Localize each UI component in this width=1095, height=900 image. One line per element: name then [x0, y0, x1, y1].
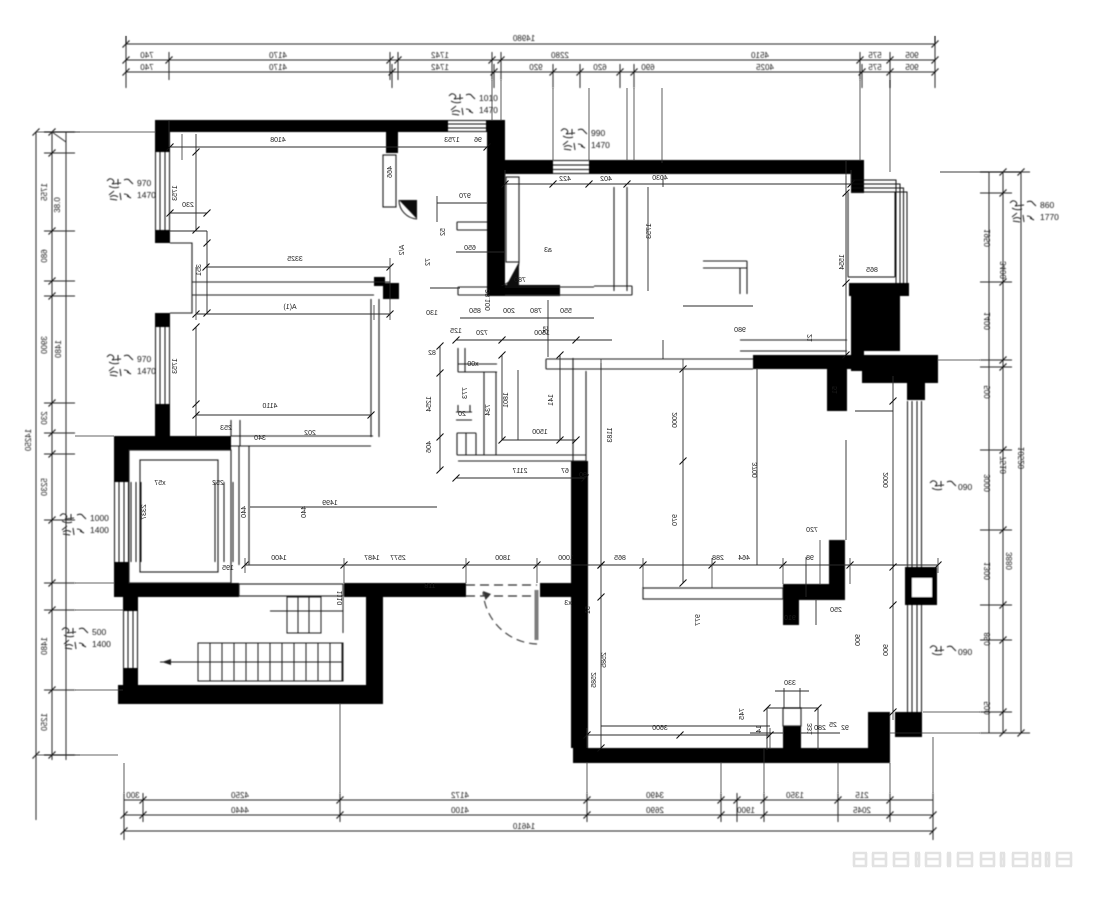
svg-text:1250: 1250: [40, 713, 49, 731]
svg-text:1183: 1183: [607, 427, 614, 442]
svg-text:3880: 3880: [1005, 552, 1014, 570]
svg-text:1500: 1500: [532, 429, 548, 436]
svg-text:14980: 14980: [512, 34, 535, 43]
svg-text:500: 500: [92, 627, 106, 637]
svg-text:422: 422: [559, 176, 571, 183]
svg-text:14610: 14610: [512, 822, 535, 831]
svg-text:4030: 4030: [652, 175, 668, 182]
svg-text:734: 734: [485, 404, 492, 416]
svg-text:252: 252: [212, 480, 224, 487]
svg-text:250: 250: [830, 607, 842, 614]
svg-text:253: 253: [220, 425, 232, 432]
svg-text:1742: 1742: [431, 51, 449, 60]
svg-text:5230: 5230: [40, 478, 49, 496]
svg-text:865: 865: [866, 267, 878, 274]
svg-text:575: 575: [868, 51, 882, 60]
svg-text:351: 351: [196, 264, 203, 276]
svg-text:51: 51: [832, 386, 839, 394]
svg-text:1742: 1742: [431, 63, 449, 72]
svg-text:977: 977: [695, 614, 702, 626]
svg-text:860: 860: [1040, 200, 1054, 210]
svg-text:288: 288: [712, 555, 724, 562]
svg-text:195: 195: [222, 565, 234, 572]
svg-text:4108: 4108: [270, 137, 286, 144]
svg-text:970: 970: [137, 178, 151, 188]
svg-text:1000: 1000: [90, 513, 109, 523]
svg-text:a3: a3: [544, 247, 552, 254]
svg-text:1487: 1487: [364, 555, 380, 562]
svg-text:2585: 2585: [591, 672, 598, 688]
svg-text:x00: x00: [467, 361, 478, 368]
svg-text:865: 865: [614, 555, 626, 562]
svg-text:230: 230: [40, 411, 49, 425]
svg-text:2000: 2000: [672, 412, 679, 428]
svg-text:21: 21: [807, 334, 814, 342]
svg-text:990: 990: [591, 128, 605, 138]
svg-text:1400: 1400: [90, 525, 109, 535]
svg-text:7510: 7510: [999, 456, 1008, 474]
svg-text:3325: 3325: [287, 256, 303, 263]
svg-text:740: 740: [140, 63, 154, 72]
svg-text:1801: 1801: [503, 392, 510, 408]
svg-text:2337: 2337: [141, 504, 148, 520]
svg-text:575: 575: [868, 63, 882, 72]
svg-text:3400: 3400: [999, 261, 1008, 279]
svg-text:96: 96: [474, 137, 482, 144]
svg-text:14250: 14250: [24, 429, 33, 452]
svg-text:20: 20: [458, 411, 466, 418]
svg-text:4100: 4100: [451, 806, 469, 815]
svg-text:406: 406: [426, 441, 433, 453]
svg-text:1554: 1554: [839, 254, 846, 270]
svg-text:500: 500: [983, 701, 992, 715]
svg-text:1753: 1753: [172, 185, 179, 201]
svg-text:745: 745: [739, 708, 746, 720]
svg-text:1400: 1400: [983, 312, 992, 330]
svg-text:1753: 1753: [444, 137, 460, 144]
svg-text:900: 900: [855, 634, 862, 646]
svg-text:1470: 1470: [591, 140, 610, 150]
svg-text:500: 500: [983, 385, 992, 399]
svg-text:4025: 4025: [756, 63, 774, 72]
svg-text:3000: 3000: [983, 474, 992, 492]
svg-text:4170: 4170: [269, 63, 287, 72]
svg-text:1350: 1350: [786, 791, 804, 800]
svg-text:141: 141: [548, 394, 555, 406]
svg-text:1755: 1755: [40, 183, 49, 201]
svg-text:466: 466: [387, 166, 394, 178]
svg-text:10520: 10520: [1017, 447, 1026, 470]
svg-text:1753: 1753: [646, 223, 653, 239]
svg-text:280: 280: [814, 725, 826, 732]
svg-text:1400: 1400: [271, 555, 287, 562]
svg-text:850: 850: [983, 632, 992, 646]
svg-text:1110: 1110: [337, 591, 344, 606]
svg-text:650: 650: [464, 245, 476, 252]
svg-text:90: 90: [579, 472, 587, 479]
svg-text:x57: x57: [154, 480, 165, 487]
svg-text:1400: 1400: [92, 639, 111, 649]
svg-text:780: 780: [530, 308, 542, 315]
svg-text:215: 215: [855, 791, 869, 800]
svg-text:67: 67: [561, 468, 569, 475]
svg-text:550: 550: [560, 308, 572, 315]
svg-text:2585: 2585: [601, 652, 608, 668]
svg-text:4172: 4172: [451, 791, 469, 800]
svg-text:850: 850: [469, 308, 481, 315]
svg-text:780: 780: [514, 277, 526, 284]
svg-text:331: 331: [807, 723, 814, 735]
svg-text:2045: 2045: [853, 806, 871, 815]
svg-text:4510: 4510: [751, 51, 769, 60]
svg-text:970: 970: [137, 354, 151, 364]
svg-text:4170: 4170: [269, 51, 287, 60]
svg-text:A/2: A/2: [399, 245, 406, 256]
svg-text:130: 130: [426, 310, 438, 317]
svg-text:2690: 2690: [646, 806, 664, 815]
svg-text:3700: 3700: [752, 462, 759, 478]
svg-text:090: 090: [958, 482, 972, 492]
svg-text:1499: 1499: [322, 500, 338, 507]
svg-text:440: 440: [301, 506, 308, 518]
svg-text:4250: 4250: [231, 791, 249, 800]
svg-text:x3: x3: [564, 600, 572, 607]
svg-text:38.0: 38.0: [53, 197, 62, 213]
svg-text:4110: 4110: [262, 403, 277, 410]
svg-text:125: 125: [450, 328, 462, 335]
svg-text:98: 98: [806, 555, 814, 562]
svg-text:620: 620: [593, 63, 607, 72]
svg-text:118: 118: [424, 583, 435, 590]
svg-text:52: 52: [440, 228, 447, 236]
svg-text:2280: 2280: [551, 51, 569, 60]
svg-text:38.100: 38.100: [485, 289, 492, 311]
svg-text:720: 720: [806, 527, 818, 534]
svg-text:1470: 1470: [137, 366, 156, 376]
svg-text:690: 690: [641, 63, 655, 72]
svg-text:1470: 1470: [479, 105, 498, 115]
svg-text:1470: 1470: [137, 190, 156, 200]
svg-text:1000: 1000: [558, 555, 574, 562]
svg-text:A(1): A(1): [283, 304, 296, 311]
svg-text:300: 300: [126, 791, 140, 800]
svg-text:3490: 3490: [646, 791, 664, 800]
svg-text:920: 920: [529, 63, 543, 72]
svg-text:402: 402: [600, 176, 612, 183]
svg-text:1770: 1770: [1040, 212, 1059, 222]
svg-text:2117: 2117: [512, 468, 527, 475]
svg-text:1800: 1800: [495, 555, 511, 562]
svg-text:14: 14: [756, 725, 763, 733]
svg-text:1753: 1753: [172, 358, 179, 374]
svg-text:773: 773: [462, 387, 469, 399]
svg-text:970: 970: [459, 193, 471, 200]
svg-text:200: 200: [503, 308, 515, 315]
svg-text:900: 900: [883, 644, 890, 656]
svg-text:4440: 4440: [231, 806, 249, 815]
svg-text:82: 82: [428, 350, 436, 357]
svg-text:740: 740: [140, 51, 154, 60]
svg-text:51: 51: [585, 606, 592, 614]
svg-text:3900: 3900: [40, 336, 49, 354]
svg-text:980: 980: [734, 327, 746, 334]
svg-text:340: 340: [254, 435, 266, 442]
svg-text:910: 910: [784, 615, 796, 622]
svg-text:905: 905: [905, 63, 919, 72]
svg-text:1480: 1480: [54, 340, 63, 358]
svg-text:1480: 1480: [40, 637, 49, 655]
svg-text:72: 72: [425, 258, 432, 266]
svg-text:970: 970: [672, 514, 679, 526]
svg-text:25: 25: [829, 722, 837, 729]
svg-text:1900: 1900: [737, 806, 755, 815]
svg-text:330: 330: [784, 680, 796, 687]
svg-text:2000: 2000: [883, 472, 890, 488]
svg-text:1010: 1010: [479, 93, 498, 103]
svg-text:202: 202: [304, 430, 316, 437]
svg-text:1254: 1254: [426, 396, 433, 412]
svg-text:720: 720: [476, 330, 488, 337]
svg-text:1950: 1950: [983, 229, 992, 247]
svg-text:55: 55: [543, 326, 550, 334]
svg-text:92: 92: [841, 725, 849, 732]
svg-text:230: 230: [182, 202, 194, 209]
svg-text:090: 090: [958, 647, 972, 657]
svg-text:905: 905: [905, 51, 919, 60]
svg-text:464: 464: [738, 555, 750, 562]
svg-text:680: 680: [40, 249, 49, 263]
svg-text:1300: 1300: [983, 562, 992, 580]
svg-text:440: 440: [241, 506, 248, 518]
svg-text:2577: 2577: [390, 555, 406, 562]
svg-text:3600: 3600: [652, 725, 668, 732]
